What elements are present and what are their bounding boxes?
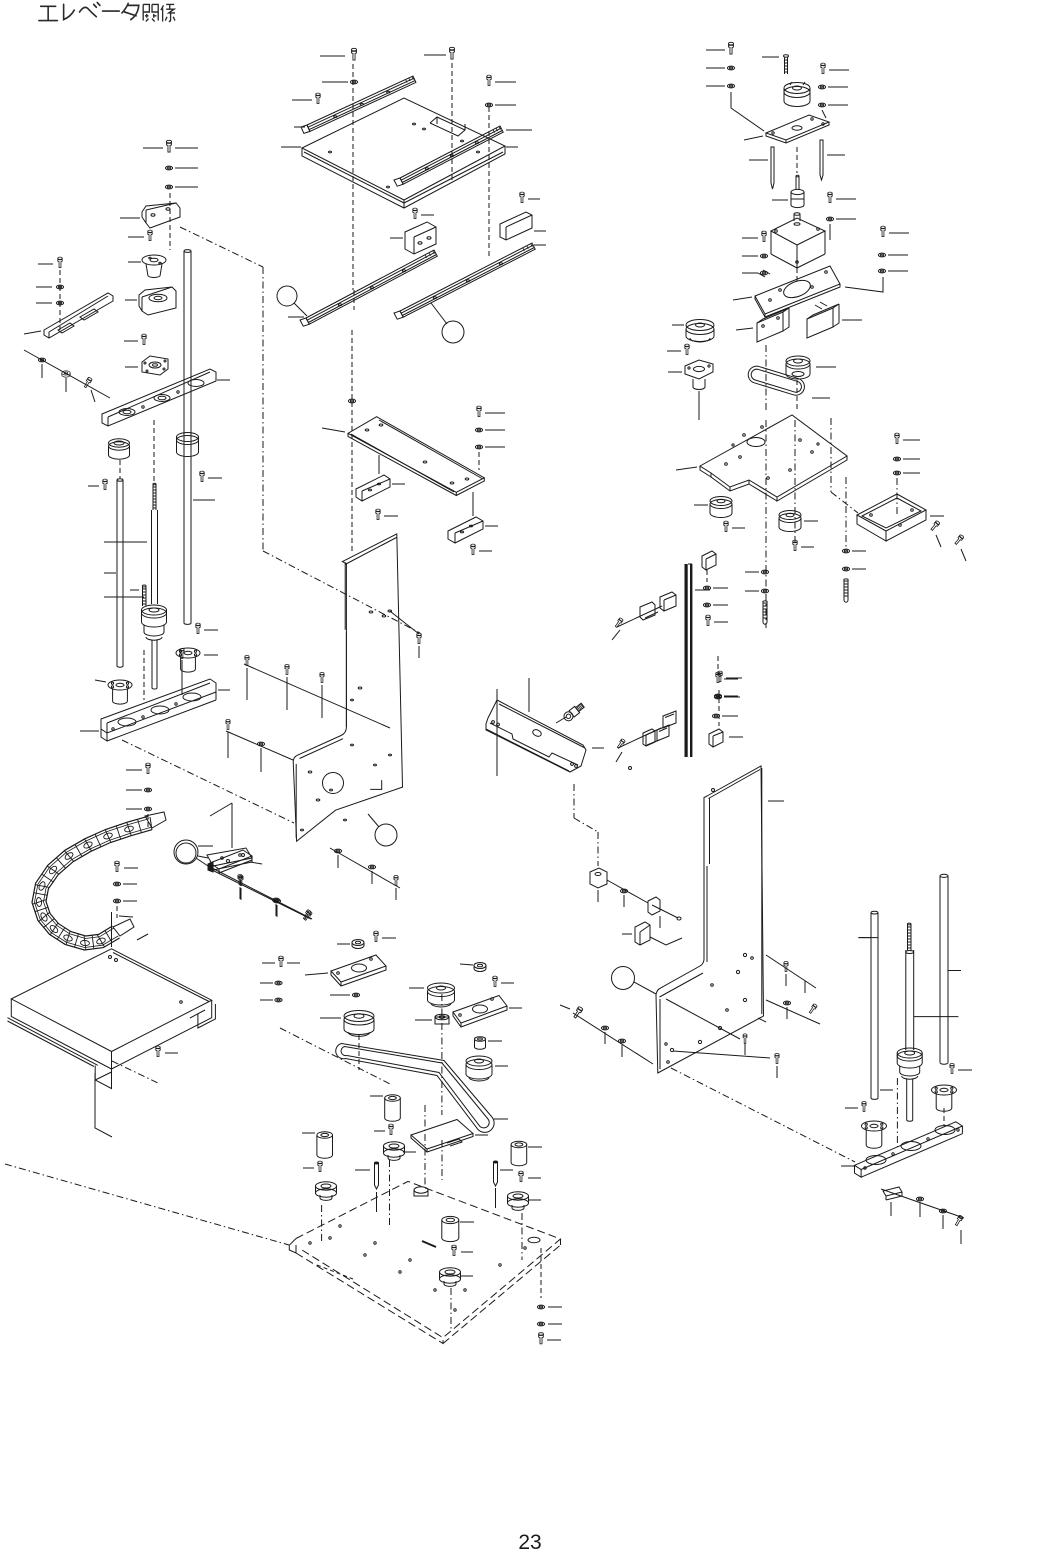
svg-text:23: 23 bbox=[518, 1531, 541, 1554]
